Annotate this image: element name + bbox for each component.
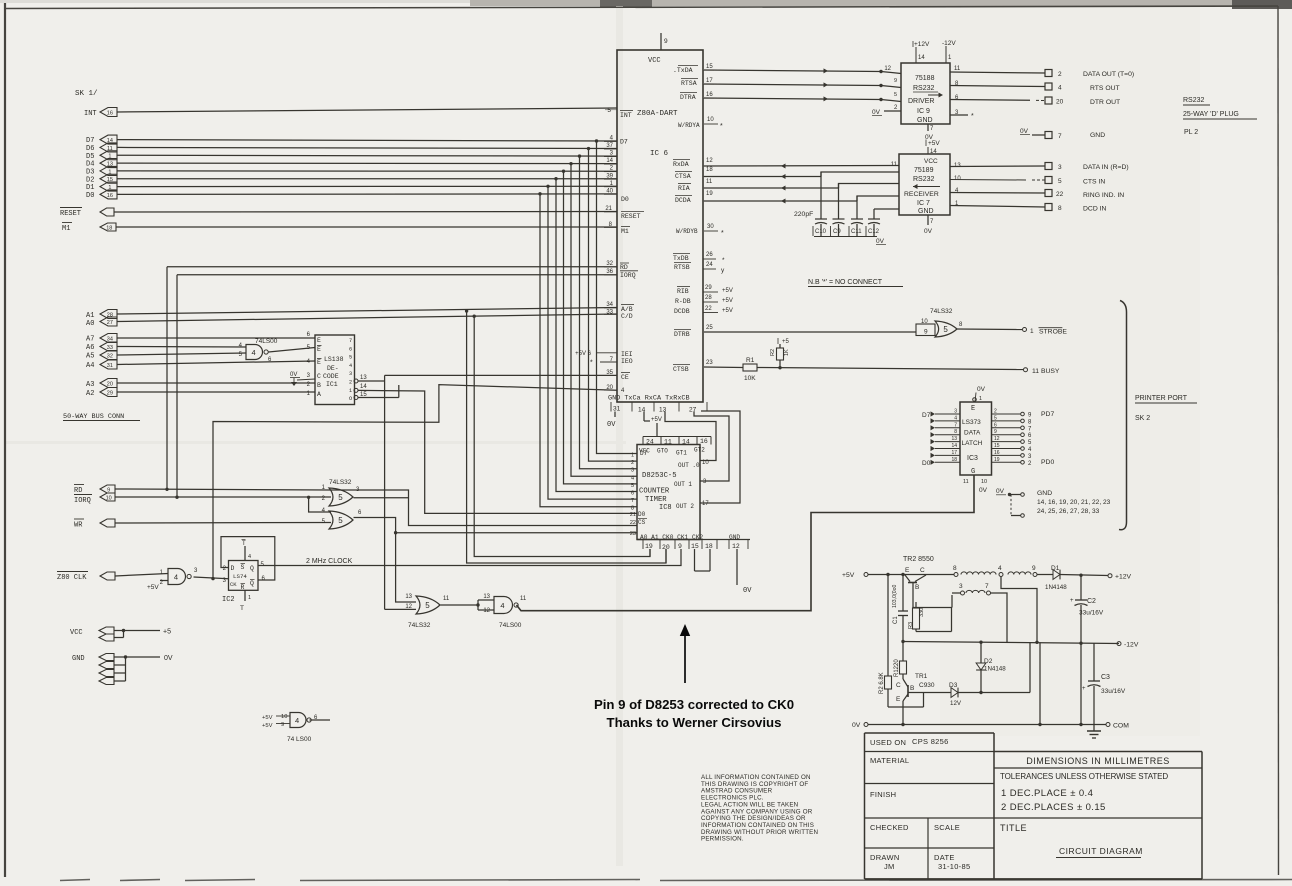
svg-text:T: T — [240, 605, 244, 612]
svg-text:17: 17 — [702, 501, 709, 507]
svg-text:24: 24 — [646, 439, 654, 446]
svg-text:GT2: GT2 — [694, 447, 705, 454]
svg-text:4: 4 — [1058, 85, 1062, 92]
wire +5V into IC8 VCC cell 24 — [656, 423, 658, 437]
svg-text:R2: R2 — [770, 349, 776, 356]
svg-text:20: 20 — [1056, 99, 1064, 106]
svg-text:0V: 0V — [872, 109, 881, 116]
svg-text:LS373: LS373 — [962, 419, 981, 426]
svg-text:1: 1 — [248, 595, 251, 601]
svg-text:C1: C1 — [893, 616, 899, 624]
PL2 pad pin 2 DATA OUT — [1045, 70, 1052, 77]
wire rail to D1 — [1037, 574, 1053, 576]
svg-text:GND: GND — [1090, 132, 1105, 139]
svg-text:330: 330 — [919, 608, 925, 617]
svg-text:M1: M1 — [62, 225, 70, 233]
svg-text:4: 4 — [621, 388, 625, 394]
svg-text:O: O — [349, 396, 352, 402]
svg-text:SK 2: SK 2 — [1135, 415, 1150, 422]
svg-text:MATERIAL: MATERIAL — [870, 756, 909, 765]
svg-text:3: 3 — [703, 479, 707, 485]
wire A1 down to IC8 pin 20 — [467, 311, 666, 563]
svg-text:D7: D7 — [620, 139, 628, 146]
IC9 75188 RS232 driver body — [901, 63, 950, 124]
svg-text:WR: WR — [74, 522, 83, 530]
svg-text:16: 16 — [107, 110, 113, 116]
wire IORQ line — [115, 496, 331, 498]
svg-text:+5V: +5V — [722, 298, 733, 304]
svg-text:D8253C-5: D8253C-5 — [642, 472, 677, 480]
svg-text:27: 27 — [689, 407, 697, 414]
svg-text:2: 2 — [894, 105, 898, 111]
wire data bus D4 — [117, 162, 617, 165]
svg-text:GND: GND — [1037, 490, 1052, 497]
svg-text:5: 5 — [338, 493, 343, 502]
svg-text:9: 9 — [1032, 565, 1036, 572]
svg-text:D7: D7 — [922, 412, 931, 419]
svg-text:DE-: DE- — [327, 365, 339, 372]
wire IC6 RxCA pin 13 to IC8 OUT0 pin 10 — [665, 412, 716, 461]
wire M1 to Z80 pin 8 — [116, 226, 617, 228]
svg-text:14, 16, 19, 20, 21, 22, 23: 14, 16, 19, 20, 21, 22, 23 — [1037, 499, 1111, 506]
svg-text:C: C — [896, 682, 901, 689]
junction D3 bus tap — [562, 170, 565, 173]
svg-text:CTSA: CTSA — [675, 173, 691, 180]
svg-text:VCC: VCC — [70, 629, 83, 637]
svg-text:E: E — [317, 337, 321, 344]
svg-text:16: 16 — [700, 438, 708, 445]
svg-text:32: 32 — [107, 353, 113, 359]
svg-text:3: 3 — [194, 568, 198, 574]
svg-text:5: 5 — [338, 516, 343, 525]
svg-text:4: 4 — [174, 572, 178, 581]
svg-text:19: 19 — [645, 543, 653, 550]
svg-text:A2: A2 — [86, 390, 94, 398]
svg-text:RESET: RESET — [60, 210, 81, 218]
printer port SK2 bracket — [1119, 301, 1127, 530]
svg-text:12: 12 — [884, 66, 891, 72]
svg-text:R3: R3 — [908, 622, 914, 629]
svg-text:14: 14 — [682, 439, 690, 446]
IC8 pin 19 stub — [649, 549, 651, 557]
resistor R1 220 — [902, 642, 904, 662]
wire pin 7 down to -12V rail — [991, 593, 1008, 642]
svg-text:CIRCUIT DIAGRAM: CIRCUIT DIAGRAM — [1059, 846, 1143, 856]
PL2 pad pin 8 DCD IN — [1045, 204, 1052, 211]
svg-text:22: 22 — [705, 306, 712, 312]
svg-text:+5V: +5V — [262, 715, 273, 721]
wire data bus D6 — [117, 147, 617, 148]
wire D3 vertical to IC8 pin 5 — [564, 171, 638, 484]
svg-text:*: * — [971, 113, 974, 120]
svg-text:16: 16 — [107, 193, 113, 199]
wire A2 to IC1 A pin 1 — [117, 391, 315, 393]
wire vertical rail to D3 line — [1029, 642, 1031, 692]
svg-text:PRINTER PORT: PRINTER PORT — [1135, 395, 1188, 402]
svg-text:26: 26 — [706, 252, 713, 258]
svg-text:0V: 0V — [977, 386, 986, 393]
svg-text:RIB: RIB — [677, 288, 689, 295]
svg-text:8: 8 — [954, 429, 957, 435]
IC3 D inputs and pin numbers — [935, 413, 960, 415]
wire gate output to IC1 E pin 5 — [269, 348, 316, 353]
junction D6 bus tap — [587, 147, 590, 150]
terminal +12V — [1108, 574, 1112, 578]
capacitor C3 33u/16V — [1093, 643, 1095, 681]
svg-text:D6: D6 — [86, 145, 94, 153]
wire D7 vertical to IC8 pin 1 — [597, 141, 638, 454]
svg-text:CTS IN: CTS IN — [1083, 179, 1105, 186]
svg-text:74LS00: 74LS00 — [499, 622, 522, 629]
svg-text:17: 17 — [706, 78, 713, 84]
svg-text:0V: 0V — [979, 487, 988, 494]
wire RD up to Z80 pin 32 — [166, 267, 168, 490]
svg-text:D0: D0 — [922, 460, 931, 467]
svg-text:0V: 0V — [743, 587, 752, 595]
svg-text:34: 34 — [606, 302, 613, 308]
svg-text:4: 4 — [631, 475, 634, 481]
wire pin 4 elbow down — [1001, 577, 1037, 643]
capacitor C9 — [833, 218, 845, 220]
wire IC2 clock net to Z80 pin 20 — [213, 385, 617, 579]
title block frame — [864, 733, 866, 879]
wire TR1 emitter loop — [888, 706, 924, 708]
svg-text:A/B: A/B — [621, 306, 633, 313]
svg-text:1: 1 — [1030, 328, 1034, 335]
IC2 pin 1 stub — [244, 590, 246, 601]
svg-text:PD7: PD7 — [1041, 411, 1054, 418]
IC6 Z80A-DART body — [617, 50, 703, 402]
svg-text:4: 4 — [307, 359, 311, 365]
svg-text:12: 12 — [483, 608, 490, 614]
IC6 GND pin 31 to 0V — [614, 412, 616, 418]
wire A0 down to IC8 pin 19 — [474, 316, 650, 556]
svg-text:29: 29 — [107, 390, 113, 396]
IC2 pin 4 stub — [244, 546, 246, 561]
svg-text:4: 4 — [239, 343, 243, 349]
svg-text:24, 25, 26, 27, 28, 33: 24, 25, 26, 27, 28, 33 — [1037, 508, 1100, 515]
svg-text:39: 39 — [606, 173, 613, 179]
svg-text:11: 11 — [706, 179, 713, 185]
svg-text:4: 4 — [295, 716, 299, 725]
wire INT to Z80 pin 5 — [117, 108, 617, 112]
svg-text:+5V: +5V — [651, 417, 662, 423]
svg-text:14: 14 — [951, 443, 957, 449]
svg-text:A6: A6 — [86, 344, 94, 352]
svg-text:3: 3 — [954, 409, 957, 415]
svg-text:5: 5 — [894, 92, 897, 98]
svg-text:25: 25 — [706, 325, 713, 331]
svg-text:DATA: DATA — [964, 430, 981, 437]
svg-text:31: 31 — [613, 406, 621, 413]
svg-text:DCDA: DCDA — [675, 197, 691, 204]
svg-text:0V: 0V — [607, 421, 616, 429]
svg-text:1K: 1K — [784, 349, 790, 356]
svg-text:+5V: +5V — [722, 288, 733, 294]
wire gate output down and to IC8 WR pin 23 — [354, 518, 417, 603]
svg-text:4: 4 — [322, 508, 326, 514]
svg-text:40: 40 — [606, 188, 613, 194]
svg-text:12: 12 — [732, 543, 740, 550]
wire A4 to IC1 E pin 4 — [117, 361, 315, 365]
svg-text:3: 3 — [349, 371, 352, 377]
transformer winding 4-9 — [1008, 572, 1031, 575]
svg-text:IC1: IC1 — [326, 381, 338, 388]
svg-text:+5V: +5V — [928, 140, 940, 147]
svg-text:CS: CS — [638, 519, 646, 526]
svg-text:*: * — [590, 360, 593, 367]
svg-text:*: * — [722, 257, 725, 264]
IC3 74LS373 data latch body — [960, 402, 992, 475]
svg-text:9: 9 — [678, 543, 682, 550]
svg-text:2 DEC.PLACES ± 0.15: 2 DEC.PLACES ± 0.15 — [1001, 802, 1106, 813]
PL2 pad pin 5 CTS IN — [1045, 177, 1052, 184]
svg-text:11: 11 — [963, 479, 969, 485]
svg-text:C10: C10 — [815, 229, 827, 235]
wire D6 vertical to IC8 pin 2 — [589, 149, 638, 462]
annotation arrow — [684, 634, 686, 683]
svg-text:11: 11 — [443, 596, 450, 602]
svg-text:VCC: VCC — [924, 158, 938, 165]
svg-text:13: 13 — [405, 594, 412, 600]
junction IORQ branch down to gate — [307, 496, 310, 499]
svg-text:JM: JM — [884, 862, 895, 871]
svg-text:220pF: 220pF — [794, 211, 813, 218]
svg-text:36: 36 — [606, 269, 613, 275]
resistor R2 1K pullup — [779, 360, 781, 368]
svg-text:USED ON: USED ON — [870, 738, 906, 747]
IC8 bottom pin row A0 A1 CK0 CK1 CK2 GND — [637, 539, 750, 541]
svg-text:15: 15 — [706, 64, 713, 70]
svg-text:74LS32: 74LS32 — [930, 308, 953, 315]
IC1 output pin 14 bubble — [354, 388, 358, 392]
IC7 GND pin 7 to 0V — [927, 215, 929, 225]
svg-text:13: 13 — [951, 436, 957, 442]
svg-text:RS232: RS232 — [913, 176, 935, 183]
svg-text:7: 7 — [930, 126, 934, 132]
svg-text:D5: D5 — [86, 153, 94, 161]
svg-text:27: 27 — [107, 320, 113, 326]
junction RD branch up — [165, 488, 168, 491]
svg-text:B: B — [910, 685, 914, 692]
wire D0 vertical to IC8 pin 8 — [540, 194, 637, 507]
svg-text:E: E — [971, 405, 975, 413]
junction D4 bus tap — [569, 162, 572, 165]
svg-text:*: * — [720, 123, 723, 130]
svg-text:IORQ: IORQ — [74, 497, 91, 505]
svg-text:25-WAY 'D' PLUG: 25-WAY 'D' PLUG — [1183, 111, 1239, 118]
terminal BUSY SK2 pin 11 — [1024, 368, 1028, 372]
svg-text:DATA IN (R=D): DATA IN (R=D) — [1083, 164, 1129, 171]
wire D1 to +12V terminal — [1060, 575, 1108, 576]
svg-text:RTS OUT: RTS OUT — [1090, 85, 1120, 92]
svg-text:+5: +5 — [163, 629, 171, 636]
svg-text:-12V: -12V — [942, 40, 956, 47]
svg-text:Q: Q — [250, 565, 254, 572]
svg-text:GND: GND — [918, 208, 934, 215]
wire RESET to Z80 pin 21 — [114, 211, 617, 214]
wire strobe output to SK2 pin 1 — [957, 328, 1023, 331]
junction clock net at gate output — [211, 577, 214, 580]
svg-text:75189: 75189 — [914, 167, 934, 174]
svg-text:17: 17 — [951, 450, 957, 456]
wire A3 to IC1 B pin 2 — [117, 382, 315, 384]
svg-text:R-DB: R-DB — [675, 298, 691, 305]
wire data bus D3 — [117, 170, 617, 172]
capacitor C2 33u/16V — [1080, 575, 1082, 600]
svg-text:22: 22 — [1056, 191, 1064, 198]
svg-text:SK 1/: SK 1/ — [75, 90, 98, 98]
svg-text:10: 10 — [106, 495, 112, 501]
svg-text:5: 5 — [1058, 178, 1062, 185]
svg-text:9: 9 — [664, 38, 668, 45]
junction A1 branch — [465, 309, 468, 312]
wire IC1 O pin13 to vertical — [358, 380, 385, 382]
svg-text:12: 12 — [405, 604, 412, 610]
svg-text:Q: Q — [250, 580, 254, 587]
svg-text:R1220: R1220 — [894, 659, 900, 677]
svg-text:C9: C9 — [833, 229, 841, 235]
wire IC1 pin14 down to IC8 pin 21 — [358, 390, 637, 513]
wire A0 to Z80 C/D pin 33 — [117, 314, 617, 322]
resistor R3 330 — [913, 608, 920, 629]
svg-text:DATE: DATE — [934, 853, 955, 862]
transformer winding 8-4 — [961, 572, 996, 575]
svg-text:75188: 75188 — [915, 75, 935, 82]
svg-text:0V: 0V — [1020, 128, 1029, 135]
svg-text:5: 5 — [425, 601, 430, 610]
svg-text:0V: 0V — [164, 655, 173, 662]
wire TR1 base to D3 — [908, 692, 951, 694]
wire D2 vertical to IC8 pin 6 — [556, 179, 637, 492]
svg-text:A3: A3 — [86, 381, 94, 389]
svg-text:IORQ: IORQ — [620, 272, 636, 279]
svg-text:D7: D7 — [86, 137, 94, 145]
svg-text:B: B — [915, 584, 919, 591]
svg-text:IC 7: IC 7 — [917, 200, 930, 207]
svg-text:8: 8 — [953, 565, 957, 572]
transformer primary pin 9 — [1033, 573, 1037, 577]
svg-text:INT: INT — [84, 110, 97, 118]
svg-text:CHECKED: CHECKED — [870, 823, 909, 832]
svg-text:16: 16 — [706, 92, 713, 98]
svg-text:22: 22 — [630, 520, 636, 526]
svg-text:CE: CE — [621, 374, 629, 381]
svg-text:DRIVER: DRIVER — [908, 98, 934, 105]
wire RxDA line — [704, 165, 899, 168]
wire D1 vertical to IC8 pin 7 — [548, 186, 637, 499]
svg-text:GT1: GT1 — [676, 450, 687, 457]
svg-text:CPS 8256: CPS 8256 — [912, 737, 949, 746]
svg-text:Z80 CLK: Z80 CLK — [57, 574, 87, 582]
IC2 74LS74 feedback loop Qbar to D — [221, 537, 275, 580]
svg-text:FINISH: FINISH — [870, 790, 896, 799]
svg-text:PL 2: PL 2 — [1184, 129, 1198, 136]
svg-text:*: * — [721, 230, 724, 237]
svg-text:4: 4 — [500, 601, 504, 610]
svg-text:4: 4 — [248, 554, 251, 560]
svg-text:DTRB: DTRB — [674, 331, 690, 338]
wire RTSA to IC9 — [704, 84, 881, 86]
svg-text:14: 14 — [606, 158, 613, 164]
svg-text:4: 4 — [349, 363, 352, 369]
svg-text:TR2 8550: TR2 8550 — [903, 556, 934, 563]
svg-text:7: 7 — [985, 583, 989, 590]
svg-text:GND: GND — [72, 655, 85, 663]
svg-text:GTO: GTO — [657, 448, 668, 455]
svg-text:1N4148: 1N4148 — [984, 666, 1006, 673]
IC8 CK1 CK2 stubs bridged — [694, 549, 696, 571]
74LS32 IC4b gate WR/IORQ — [329, 511, 353, 529]
svg-text:32: 32 — [606, 261, 613, 267]
svg-text:R: R — [241, 584, 245, 591]
wire gate2 output into 74LS32 pin 13 done above; output to 74LS00 — [441, 604, 479, 606]
svg-text:D0: D0 — [621, 196, 629, 203]
svg-text:IC 9: IC 9 — [917, 108, 930, 115]
svg-text:11: 11 — [520, 596, 527, 602]
svg-text:IC 6: IC 6 — [650, 150, 669, 158]
wire vertical to COM — [1039, 642, 1041, 724]
svg-text:D2: D2 — [86, 176, 94, 184]
svg-text:21: 21 — [605, 206, 612, 212]
ground symbol below COM — [1087, 730, 1101, 732]
transformer secondary pin 7 — [987, 591, 991, 595]
wire IC6 TxRxCB pin 27 to IC8 OUT1 pin 13 — [694, 412, 729, 482]
wire IC6 TxCa pin 14 to +5V — [643, 412, 645, 422]
wire A6 to 74LS00 gate pin 4 — [117, 346, 246, 349]
svg-text:TR1: TR1 — [915, 673, 928, 680]
svg-text:N.B '*' = NO CONNECT: N.B '*' = NO CONNECT — [808, 279, 883, 286]
svg-text:RS232: RS232 — [913, 85, 935, 92]
wire 74LS00 output to LS373 G via long run — [517, 475, 975, 611]
svg-text:6: 6 — [262, 576, 266, 582]
IC8 GND pin 12 stub to 0V — [736, 549, 738, 585]
svg-text:18: 18 — [106, 225, 112, 231]
wire data bus D1 — [117, 185, 617, 187]
wire data bus D0 — [117, 193, 617, 196]
svg-text:13: 13 — [483, 594, 490, 600]
wire C12 stub into IC7 — [874, 208, 899, 210]
svg-text:15: 15 — [691, 543, 699, 550]
svg-text:74LS00: 74LS00 — [255, 338, 278, 345]
wire branch to IC8 pin 23 — [396, 532, 637, 534]
svg-text:1: 1 — [160, 570, 164, 576]
junction WR gate branch — [394, 531, 397, 534]
svg-text:7: 7 — [930, 219, 934, 225]
svg-text:+5V 6: +5V 6 — [575, 351, 592, 357]
wire CE net vertical IC1 pin13 to Z80 CE and down to 74LS32 pin 12 — [384, 375, 386, 609]
wire WR to 74LS32 pin 5 — [115, 522, 331, 525]
svg-text:11: 11 — [664, 439, 672, 446]
junction D1 bus tap — [546, 185, 549, 188]
capacitor C1 and value — [902, 575, 904, 612]
wire IC8 OUT2 pin 17 elbow — [700, 411, 740, 503]
svg-text:LS74: LS74 — [233, 573, 247, 580]
capacitor C10 — [815, 218, 827, 220]
PL2 pad pin 20 DTR OUT — [1045, 97, 1052, 104]
svg-text:7: 7 — [1058, 133, 1062, 140]
svg-text:A0: A0 — [86, 320, 94, 328]
svg-text:D: D — [231, 565, 235, 572]
capacitor ground rail 0V — [814, 236, 877, 238]
junction A0 branch — [473, 315, 476, 318]
svg-text:y: y — [721, 267, 725, 274]
svg-text:D0: D0 — [638, 511, 646, 518]
svg-text:5: 5 — [349, 355, 352, 361]
svg-text:S: S — [241, 564, 245, 571]
svg-text:7: 7 — [954, 422, 957, 428]
74LS32 IC4c gate — [416, 596, 440, 614]
